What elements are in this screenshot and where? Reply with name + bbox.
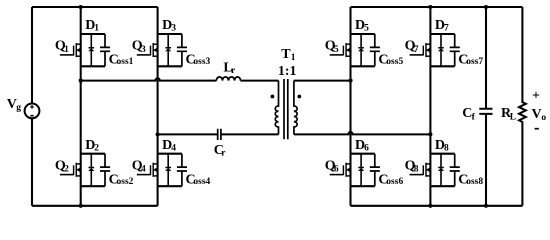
svg-text:+: +	[532, 88, 540, 103]
wire Q8 cell node brackets	[430, 154, 454, 187]
diode D7	[435, 18, 449, 66]
svg-text:8: 8	[414, 165, 419, 175]
svg-text:1: 1	[291, 53, 296, 63]
svg-text:7: 7	[414, 45, 419, 55]
label Vo	[532, 107, 547, 123]
wire node A to Lr (hop over leg B)	[81, 78, 217, 80]
diode D1	[85, 18, 99, 66]
capacitor Coss7	[450, 34, 484, 68]
junction node dot 6	[156, 132, 160, 136]
transistor Q5	[325, 39, 351, 57]
junction node dot 9	[428, 204, 432, 208]
wire bottom rail left	[32, 205, 158, 207]
svg-text:4: 4	[141, 165, 146, 175]
wire top rail left	[32, 6, 158, 8]
wire leg B mid node to Cr	[158, 133, 218, 135]
wire transformer secondary top to leg C mid	[294, 80, 351, 82]
wire Q6 cell node brackets	[351, 154, 375, 187]
capacitor Coss8	[450, 154, 484, 188]
transistor Q4	[132, 158, 158, 176]
capacitor Coss6	[370, 154, 404, 188]
capacitor Coss3	[177, 34, 211, 68]
source Vg	[7, 97, 40, 118]
diode D3	[162, 18, 176, 66]
svg-text:oss1: oss1	[117, 57, 134, 67]
diode D4	[162, 138, 176, 186]
svg-text:7: 7	[444, 24, 449, 34]
wire Q5 cell node brackets	[351, 34, 375, 66]
transistor Q8	[405, 158, 431, 176]
wire Q2 cell node brackets	[81, 154, 105, 187]
transformer T1 primary winding	[275, 81, 278, 135]
diode D2	[85, 138, 99, 186]
junction node dot 7	[428, 132, 432, 136]
junction node dot 2	[428, 5, 432, 9]
svg-text:6: 6	[334, 165, 339, 175]
capacitor Coss2	[100, 154, 134, 188]
junction node dot 5	[348, 79, 352, 83]
svg-text:r: r	[221, 149, 226, 159]
junction node dot 4	[79, 79, 83, 83]
transformer primary polarity dot	[271, 95, 275, 99]
diode D8	[435, 138, 449, 186]
capacitor Coss1	[100, 34, 134, 68]
capacitor Coss5	[370, 34, 404, 68]
svg-text:oss2: oss2	[117, 177, 134, 187]
svg-text:2: 2	[94, 143, 99, 153]
wire Cr to transformer primary bottom	[221, 133, 279, 135]
label output -	[535, 128, 539, 130]
svg-text:oss5: oss5	[386, 57, 403, 67]
resistor RL	[501, 7, 526, 206]
svg-text:1: 1	[64, 45, 69, 55]
wire transformer secondary bottom to leg D mid (hop over leg C)	[294, 132, 431, 134]
svg-text:T: T	[281, 47, 291, 62]
junction node dot 10	[484, 204, 488, 208]
wire top rail right	[351, 6, 523, 8]
svg-text:L: L	[510, 112, 516, 122]
capacitor Coss4	[177, 154, 211, 188]
wire Q7 cell node brackets	[430, 34, 454, 66]
wire leg B vertical	[157, 7, 159, 206]
svg-text:f: f	[472, 112, 476, 122]
capacitor Cf	[462, 7, 492, 206]
junction node dot 8	[79, 204, 83, 208]
svg-text:V: V	[532, 107, 542, 122]
svg-text:5: 5	[364, 24, 369, 34]
junction node dot 3	[484, 5, 488, 9]
wire leg D vertical	[429, 7, 431, 206]
svg-text:6: 6	[364, 143, 369, 153]
label T1	[281, 47, 296, 63]
transistor Q7	[405, 39, 431, 57]
transistor Q6	[325, 158, 351, 176]
wire leg C vertical	[349, 7, 351, 206]
wire Q3 cell node brackets	[158, 34, 182, 66]
svg-text:4: 4	[171, 143, 176, 153]
wire Lr to transformer primary top	[241, 80, 279, 82]
wire left input rail	[31, 7, 33, 206]
transformer secondary polarity dot	[297, 95, 301, 99]
junction node dot 1	[79, 5, 83, 9]
transistor Q1	[55, 39, 81, 57]
svg-text:oss7: oss7	[466, 57, 483, 67]
svg-text:oss8: oss8	[466, 177, 483, 187]
transformer T1 secondary winding	[294, 81, 297, 135]
transistor Q2	[55, 158, 81, 176]
svg-text:8: 8	[444, 143, 449, 153]
wire Q1 cell node brackets	[81, 34, 105, 66]
diode D5	[355, 18, 369, 66]
svg-text:g: g	[16, 103, 21, 113]
svg-text:3: 3	[141, 45, 146, 55]
svg-text:o: o	[541, 113, 546, 123]
svg-text:oss6: oss6	[386, 177, 403, 187]
svg-text:1:1: 1:1	[278, 64, 297, 79]
svg-text:3: 3	[171, 24, 176, 34]
inductor Lr	[217, 60, 241, 80]
svg-text:1: 1	[94, 24, 99, 34]
diode D6	[355, 138, 369, 186]
transistor Q3	[132, 39, 158, 57]
transformer T1 core	[284, 79, 288, 139]
svg-text:5: 5	[334, 45, 339, 55]
svg-text:oss4: oss4	[193, 177, 210, 187]
capacitor Cr	[214, 129, 227, 159]
svg-text:r: r	[231, 66, 236, 76]
wire leg A vertical	[80, 7, 82, 206]
wire bottom rail right	[351, 205, 523, 207]
svg-text:2: 2	[64, 165, 69, 175]
svg-text:oss3: oss3	[193, 57, 210, 67]
wire Q4 cell node brackets	[158, 154, 182, 187]
